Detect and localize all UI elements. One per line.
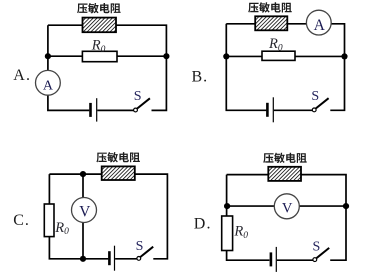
node dot left (A) (45, 53, 51, 59)
varistor label 压敏电阻 (D) (263, 153, 307, 163)
circuit A parallel branch wire (48, 55, 166, 57)
node dot right (A) (163, 53, 169, 59)
resistor R0 (C) vertical box (44, 204, 54, 237)
switch S (C) pivot circle (137, 257, 141, 261)
battery (B) long thin plate (272, 97, 274, 122)
battery (C) short thick plate (108, 251, 111, 265)
varistor RV (D) hatched box (268, 167, 301, 181)
svg-text:A.: A. (13, 67, 31, 84)
voltmeter V1 circle (72, 198, 97, 223)
varistor RV (A) hatched box (83, 18, 117, 33)
circuit B parallel branch wire (226, 55, 344, 57)
voltmeter V2 circle (274, 194, 299, 219)
svg-text:S: S (311, 89, 319, 104)
battery (A) short thick plate (89, 103, 92, 117)
svg-text:A: A (314, 17, 326, 34)
node dot left (B) (223, 53, 229, 59)
circuit D outer loop wire (227, 175, 346, 261)
varistor label 压敏电阻 (A) (77, 3, 121, 13)
wire battery to switch (D) (277, 259, 313, 261)
switch S (D) lever (317, 248, 330, 258)
resistor R0 (B) box (262, 51, 295, 60)
circuit A outer loop wire (48, 25, 166, 110)
switch S (A) lever (137, 98, 150, 108)
circuit B outer loop wire (226, 24, 344, 111)
varistor RV (C) hatched box (102, 166, 135, 180)
circuit D middle branch wire (227, 205, 346, 207)
switch S (C) lever (141, 247, 154, 257)
battery (C) long thin plate (114, 246, 116, 271)
resistor R0 (D) vertical box (222, 216, 233, 251)
node dot left (D) (224, 203, 230, 209)
varistor label 压敏电阻 (C) (96, 152, 140, 162)
node dot top (C) (80, 171, 86, 177)
svg-text:S: S (136, 239, 144, 254)
battery (D) short thick plate (270, 252, 273, 266)
svg-text:S: S (134, 89, 142, 104)
varistor label 压敏电阻 (B) (248, 2, 292, 12)
svg-text:V: V (282, 200, 293, 216)
svg-text:S: S (313, 239, 321, 254)
wire battery to switch (B) (274, 109, 312, 111)
svg-text:B.: B. (192, 69, 209, 86)
node dot right (D) (343, 203, 349, 209)
svg-text:D.: D. (194, 215, 212, 232)
switch S (A) pivot circle (134, 108, 138, 112)
ammeter A2 circle (306, 10, 331, 35)
svg-text:C.: C. (13, 212, 29, 229)
switch S (B) lever (316, 98, 329, 108)
switch S (D) pivot circle (313, 258, 317, 262)
battery (A) long thin plate (96, 98, 98, 121)
battery (B) short thick plate (266, 103, 269, 117)
wire battery to switch (C) (115, 258, 137, 260)
ammeter A1 circle (36, 70, 61, 95)
switch S (B) pivot circle (312, 108, 316, 112)
svg-text:A: A (43, 79, 54, 94)
svg-text:V: V (79, 204, 90, 221)
resistor R0 (A) box (82, 51, 117, 61)
node dot right (B) (341, 53, 347, 59)
varistor RV (B) hatched box (255, 16, 287, 30)
node dot bottom (C) (80, 256, 86, 262)
circuit C middle vertical wire (82, 174, 84, 259)
battery (D) long thin plate (275, 247, 277, 272)
wire battery to switch (A) (97, 109, 133, 111)
circuit C outer loop wire (49, 174, 167, 259)
